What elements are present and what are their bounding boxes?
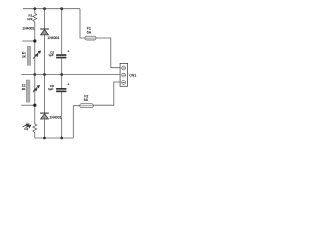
svg-text:1µF: 1µF <box>48 87 53 91</box>
EL panel E1 body <box>27 46 30 65</box>
capacitor C6 plates <box>56 88 66 90</box>
junction dot top bus / diode branch <box>43 7 46 10</box>
wire F1 output to CN1 pin 1 <box>96 38 120 68</box>
wire stub C <box>21 104 36 106</box>
svg-text:1µF: 1µF <box>48 53 53 57</box>
svg-text:3K: 3K <box>22 55 26 59</box>
wire diode branch middle <box>44 35 46 113</box>
svg-text:+: + <box>67 49 69 53</box>
arrows LDR bottom-left <box>23 124 31 128</box>
junction dot top bus / left column <box>33 7 36 10</box>
fuse F2 <box>80 104 94 108</box>
wire bottom bus <box>35 137 74 139</box>
svg-text:1N4001: 1N4001 <box>50 116 62 120</box>
wire F2 input and riser from bottom bus <box>73 106 79 138</box>
svg-text:CN1: CN1 <box>129 73 136 77</box>
arrows E1 <box>33 51 41 59</box>
svg-text:+: + <box>67 82 69 86</box>
wire diode branch upper <box>44 9 46 29</box>
capacitor C5 plates <box>56 54 66 56</box>
wire mid column between caps <box>61 58 63 88</box>
svg-text:1N4001: 1N4001 <box>22 26 34 30</box>
wire F1 drop <box>80 9 85 38</box>
junction dot top bus / mid column <box>60 7 63 10</box>
connector CN1 <box>120 63 128 86</box>
wire top bus <box>23 8 80 10</box>
svg-text:12k: 12k <box>27 17 33 21</box>
wire left column lower <box>34 133 36 139</box>
fuse F1 <box>85 36 96 40</box>
wire pin3 to F2 output <box>93 82 120 105</box>
svg-text:1N4001: 1N4001 <box>47 36 59 40</box>
svg-text:3K: 3K <box>22 87 26 91</box>
resistor bottom-left (LDR) <box>33 124 37 133</box>
junction dot wire-B / diode branch <box>43 73 46 76</box>
wire left column upper <box>34 9 36 14</box>
junction dot wire-A / left column <box>33 39 36 42</box>
wire mid column top <box>61 9 63 54</box>
diode D1 top 1N4001 <box>40 29 49 35</box>
svg-text:6A: 6A <box>87 30 92 34</box>
junction dot wire-B / left column <box>33 73 36 76</box>
wire left column middle <box>34 22 36 124</box>
svg-text:6A: 6A <box>84 98 89 102</box>
arrows E2 <box>33 85 40 92</box>
junction dot bottom bus / mid column <box>60 137 63 140</box>
wire diode branch lower <box>44 119 46 138</box>
wire pin2 bus (wire-B) <box>21 74 120 76</box>
junction dot wire-B / mid column <box>60 73 63 76</box>
junction dot bottom bus / diode branch <box>43 137 46 140</box>
wire mid column bottom <box>61 92 63 138</box>
EL panel E2 body <box>26 80 30 102</box>
svg-text:C2: C2 <box>24 127 28 131</box>
resistor R1 <box>33 14 37 23</box>
junction dot wire-C / left column <box>33 104 36 107</box>
wire stub A <box>22 40 35 42</box>
diode D2 bottom 1N4001 <box>40 113 49 119</box>
